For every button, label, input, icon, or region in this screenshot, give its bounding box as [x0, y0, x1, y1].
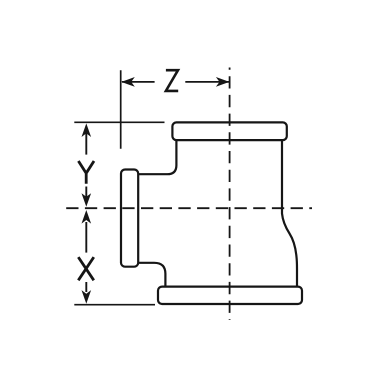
extension line for Y top (horizontal) [74, 121, 164, 123]
arrowhead Z right [216, 77, 230, 87]
label Y [78, 161, 94, 184]
fitting top band [172, 122, 286, 140]
dimension Y arrow up (shaft) [85, 132, 87, 155]
label X [78, 257, 94, 280]
extension line for X bottom (horizontal) [74, 304, 155, 306]
extension line for Z (left, vertical) [120, 70, 122, 149]
arrowhead X up [82, 210, 92, 224]
arrowhead Y up [82, 123, 92, 137]
vertical centerline (dashed) [229, 68, 231, 321]
horizontal centerline (dashed) [66, 207, 312, 209]
arrowhead Y down [82, 193, 92, 207]
dimension Y arrow down (shaft) [85, 187, 87, 199]
dimension Z line left segment [122, 81, 155, 83]
fitting body top-left edge with fillet into branch top [139, 141, 177, 174]
dimension X arrow up (shaft) [85, 222, 87, 253]
arrowhead X down [82, 290, 92, 304]
fitting right edge (straight then ogee curve) [282, 141, 297, 287]
fitting branch bottom edge with fillet into lower body [139, 263, 166, 287]
dimension X arrow down (shaft) [85, 282, 87, 292]
label Z [166, 70, 178, 91]
arrowhead Z left [121, 77, 135, 87]
fitting bottom band [158, 287, 302, 304]
dimension Z line right segment [185, 81, 229, 83]
fitting left branch band [121, 170, 138, 267]
